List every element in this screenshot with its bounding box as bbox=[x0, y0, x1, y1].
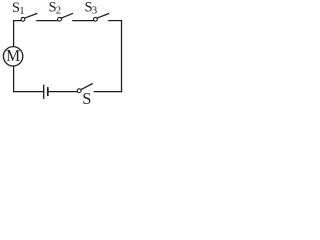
switch S2 blade bbox=[61, 13, 73, 18]
wire left side upper vertical bbox=[13, 20, 15, 46]
switch S1 pivot circle bbox=[21, 17, 25, 21]
motor U1 circle bbox=[3, 47, 22, 66]
svg-text:2: 2 bbox=[56, 6, 61, 17]
wire battery to switch S bbox=[49, 91, 78, 93]
svg-text:1: 1 bbox=[19, 6, 24, 17]
wire switch S to bottom-right corner bbox=[94, 91, 123, 93]
switch S3 blade bbox=[97, 13, 109, 18]
battery long plate (positive) bbox=[43, 85, 45, 99]
switch S blade bbox=[81, 83, 93, 89]
wire S3 to top-right corner bbox=[108, 20, 122, 22]
switch S1 blade bbox=[24, 13, 37, 18]
wire S2 to S3 bbox=[72, 20, 93, 22]
wire left side lower vertical bbox=[13, 66, 15, 92]
switch S3 pivot circle bbox=[94, 17, 98, 21]
wire bottom-left corner to battery bbox=[13, 91, 43, 93]
wire S1 to S2 bbox=[36, 20, 58, 22]
wire right side vertical bbox=[121, 20, 123, 92]
svg-text:3: 3 bbox=[92, 6, 97, 17]
battery short plate (negative) bbox=[47, 87, 49, 96]
switch S pivot circle bbox=[77, 89, 81, 93]
svg-text:S: S bbox=[82, 89, 91, 106]
switch S2 pivot circle bbox=[58, 17, 62, 21]
svg-text:M: M bbox=[6, 46, 20, 65]
wire top segment corner to S1 pivot bbox=[13, 20, 21, 22]
